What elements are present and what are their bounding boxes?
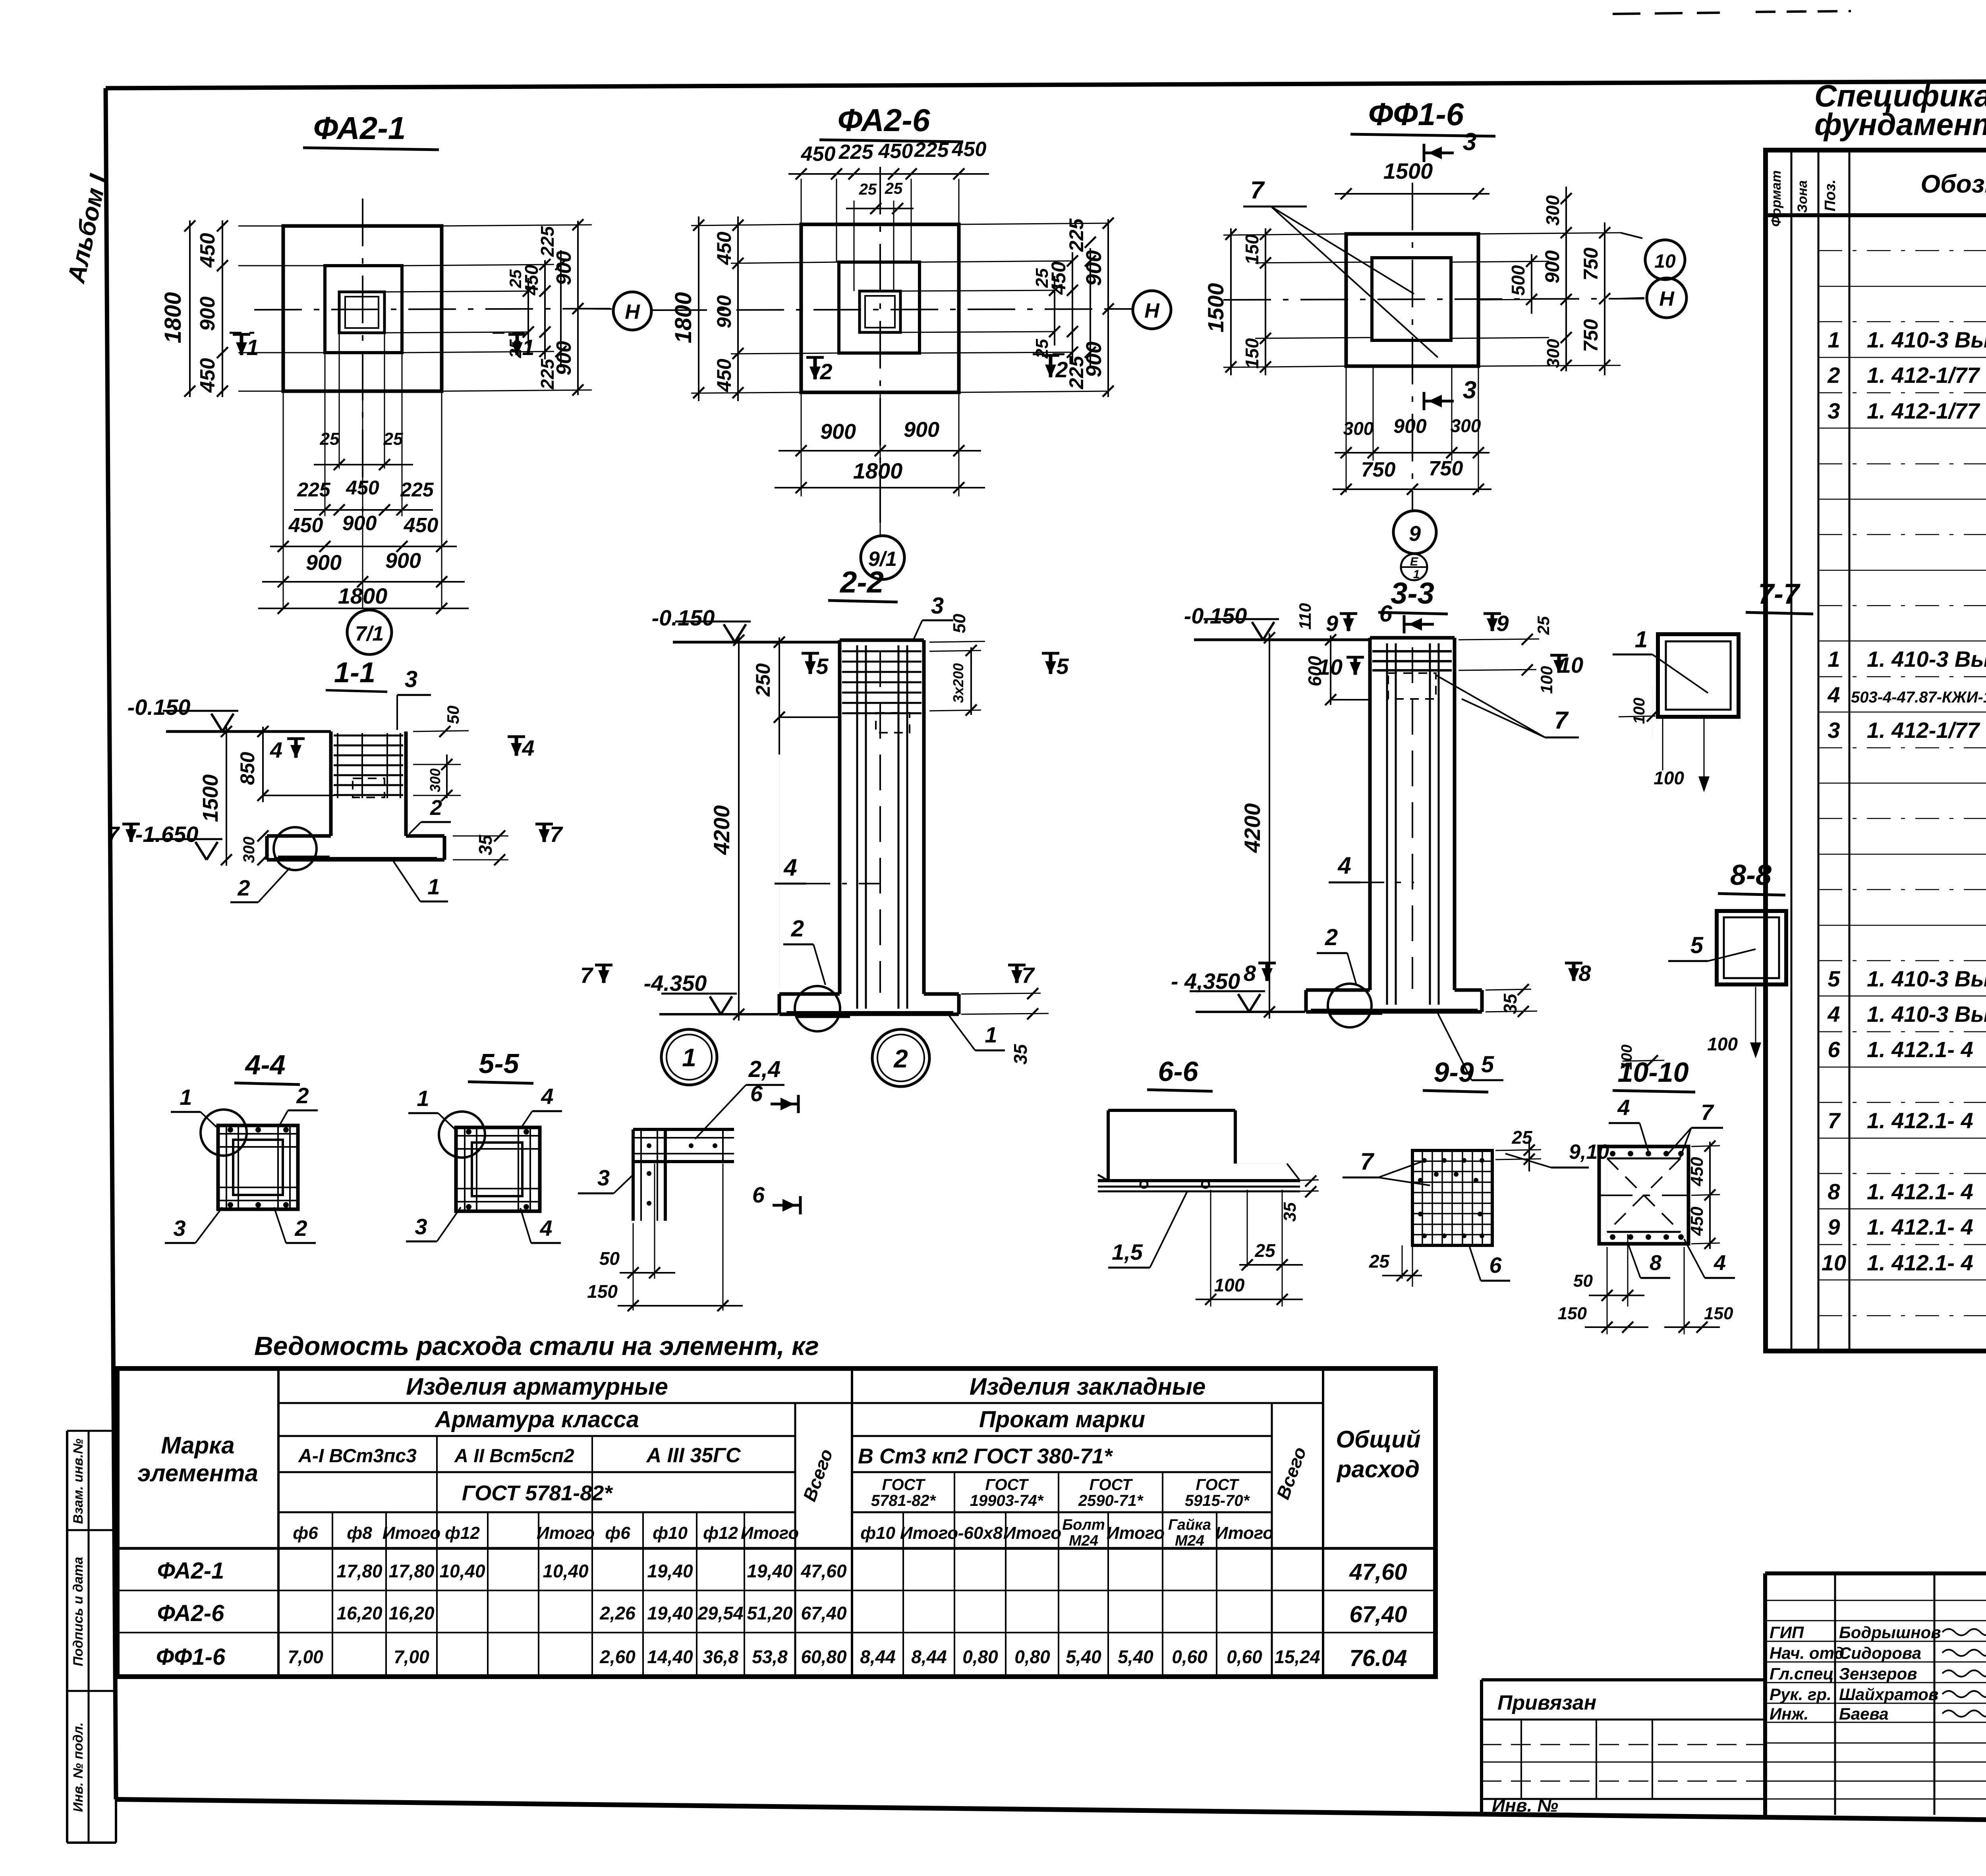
svg-text:А III 35ГС: А III 35ГС: [645, 1444, 741, 1467]
svg-text:16,20: 16,20: [388, 1603, 435, 1623]
steel table vertical lines: [278, 1368, 1323, 1677]
svg-text:2: 2: [296, 1083, 309, 1108]
svg-text:1800: 1800: [160, 292, 186, 343]
section 2-2 column: [840, 640, 924, 994]
section 2-2 label 3: [914, 593, 953, 639]
plan FA2-1 axis line to shared circle: [578, 309, 612, 309]
svg-text:М24: М24: [1175, 1532, 1204, 1549]
corner detail flags 6: [750, 1081, 800, 1214]
section 4-4 detail circle: [201, 1110, 247, 1156]
section 1-1 dim 850: [236, 726, 334, 802]
svg-text:6: 6: [1489, 1253, 1502, 1278]
svg-text:10: 10: [1822, 1250, 1846, 1275]
svg-text:225: 225: [297, 479, 331, 501]
svg-text:Н: Н: [1659, 288, 1675, 311]
position circle 1: [661, 1029, 717, 1085]
section 3-3 label 4: [1329, 852, 1414, 882]
svg-text:1: 1: [682, 1043, 696, 1072]
section 7-7 bottom dim 100: [1654, 719, 1710, 792]
svg-text:3х200: 3х200: [950, 663, 966, 703]
section 1-1 detail circle: [274, 827, 330, 870]
plan FF1-6 axis circle 10: [1621, 233, 1685, 280]
svg-text:850: 850: [236, 752, 259, 785]
section 3-3 ground line: [1194, 639, 1370, 641]
plan FA2-6 middle square: [839, 262, 920, 353]
svg-text:900: 900: [1082, 250, 1106, 286]
section 1-1 dim 35 right: [453, 822, 563, 865]
sheet frame top line: [106, 79, 1986, 88]
section 6-6 label 1,5: [1108, 1191, 1188, 1268]
svg-text:150: 150: [1242, 234, 1262, 264]
svg-text:450: 450: [346, 477, 379, 499]
svg-text:2: 2: [893, 1044, 908, 1073]
svg-text:900: 900: [196, 297, 219, 331]
section 1-1 ground line: [166, 730, 331, 733]
svg-text:Баева: Баева: [1839, 1704, 1889, 1723]
section 1-1 right flags 4: [270, 735, 535, 762]
section 7-7 title: [1746, 578, 1813, 614]
svg-text:25: 25: [320, 429, 340, 449]
svg-text:19903-74*: 19903-74*: [970, 1492, 1044, 1509]
svg-text:10: 10: [1559, 652, 1583, 677]
svg-text:35: 35: [1010, 1044, 1031, 1065]
section 1-1 mesh hatch: [334, 733, 403, 798]
section 1-1 title: [326, 657, 387, 692]
plan FA2-6 column square: [860, 291, 900, 332]
steel table diameter row: [293, 1517, 1273, 1549]
section 2-2 dim 35: [961, 988, 1049, 1065]
section 4-4 title: [234, 1049, 300, 1085]
svg-text:-1.650: -1.650: [135, 822, 199, 847]
plan FA2-6 centerlines: [659, 167, 1128, 528]
plan FA2-6 axis circle right: [1108, 291, 1171, 329]
svg-text:50: 50: [599, 1248, 620, 1269]
svg-text:ГОСТ: ГОСТ: [1090, 1476, 1134, 1494]
plan FA2-6 axis circle left: [613, 292, 659, 330]
svg-text:300: 300: [1544, 339, 1563, 368]
svg-text:Марка: Марка: [161, 1432, 234, 1459]
section 2-2 flag 5 right: [1042, 653, 1069, 679]
svg-text:7: 7: [1360, 1148, 1375, 1175]
svg-text:7: 7: [1250, 177, 1265, 204]
svg-text:10,40: 10,40: [543, 1561, 589, 1581]
svg-text:5781-82*: 5781-82*: [871, 1492, 937, 1509]
position circle 7/1 above section 1-1: [347, 610, 392, 654]
steel table title: [254, 1331, 819, 1361]
svg-text:Зона: Зона: [1795, 180, 1810, 213]
svg-text:7,00: 7,00: [288, 1646, 323, 1667]
svg-text:225: 225: [914, 139, 949, 162]
svg-text:900: 900: [1393, 415, 1427, 437]
svg-text:Изделия арматурные: Изделия арматурные: [406, 1373, 668, 1400]
svg-text:0,80: 0,80: [1014, 1646, 1050, 1667]
plan FA2-6 outer square: [801, 224, 959, 392]
section 3-3 flag 6 top: [1379, 601, 1434, 633]
spec rows FF1-6 block: [1822, 858, 1986, 1346]
plan FA2-1 middle square: [325, 266, 402, 353]
svg-text:8: 8: [1828, 1179, 1840, 1204]
svg-text:3: 3: [415, 1214, 427, 1239]
plan FA2-1 bottom dims 900 900: [262, 549, 465, 587]
plan FA2-1 outer square: [283, 226, 442, 391]
svg-text:- 4,350: - 4,350: [1171, 969, 1240, 994]
svg-text:9-9: 9-9: [1433, 1057, 1474, 1088]
section 2-2 label 4 center: [775, 854, 880, 884]
svg-text:7: 7: [1701, 1100, 1714, 1125]
svg-text:2-2: 2-2: [839, 566, 884, 599]
svg-text:ГОСТ: ГОСТ: [882, 1476, 926, 1494]
section 3-3 right top flags: [1459, 611, 1583, 694]
svg-text:16,20: 16,20: [336, 1603, 383, 1623]
svg-text:Нач. отд: Нач. отд: [1770, 1644, 1844, 1662]
plan FA2-6 top extension lines: [801, 179, 959, 291]
svg-text:ФА2-6: ФА2-6: [838, 102, 930, 138]
top staple dashes: [1613, 11, 1986, 35]
svg-text:4: 4: [1617, 1095, 1630, 1120]
left margin strip boxes: [67, 1431, 116, 1843]
svg-text:1: 1: [246, 335, 259, 360]
svg-text:25: 25: [859, 181, 877, 198]
svg-text:450: 450: [1687, 1206, 1707, 1236]
svg-text:4: 4: [783, 854, 797, 881]
section 8-8 square: [1717, 911, 1786, 984]
svg-text:Бодрышнов: Бодрышнов: [1839, 1623, 1941, 1642]
section 2-2 level -4.350: [644, 971, 779, 1014]
svg-text:225: 225: [400, 479, 434, 501]
svg-text:1500: 1500: [1203, 283, 1228, 333]
section 2-2 right top dims: [929, 614, 985, 716]
plan FF1-6 label 7 with leaders: [1243, 177, 1438, 357]
plan FA2-1 bottom dims 450 900 450: [270, 512, 457, 552]
svg-text:25: 25: [506, 339, 525, 358]
section 9-9 mesh square: [1412, 1150, 1492, 1245]
svg-text:900: 900: [385, 549, 421, 573]
section 2-2 level -0.150: [652, 605, 751, 642]
svg-text:300: 300: [1451, 415, 1481, 436]
svg-text:450: 450: [404, 514, 439, 537]
svg-text:1-1: 1-1: [334, 657, 375, 689]
section 3-3 level -4.350: [1171, 969, 1305, 1012]
svg-text:750: 750: [1580, 319, 1602, 352]
svg-text:900: 900: [306, 551, 342, 575]
svg-text:1. 410-3 Вып. 1: 1. 410-3 Вып. 1: [1867, 647, 1986, 672]
svg-text:6-6: 6-6: [1158, 1056, 1198, 1087]
corner detail label 3: [578, 1165, 632, 1193]
section 3-3 level -0.150: [1184, 603, 1279, 640]
svg-text:расход: расход: [1336, 1456, 1420, 1482]
svg-text:2: 2: [791, 916, 804, 942]
svg-text:7,00: 7,00: [394, 1646, 429, 1667]
svg-text:47,60: 47,60: [800, 1561, 847, 1581]
svg-text:100: 100: [1631, 698, 1648, 724]
section 3-3 label 7 with leaders: [1436, 675, 1579, 737]
plan FA2-6 top dim labels: [788, 138, 989, 214]
steel table data row FF1-6: [156, 1644, 1407, 1671]
section 5-5 square with reinforcement: [456, 1127, 540, 1211]
svg-text:Прокат марки: Прокат марки: [979, 1407, 1145, 1432]
svg-text:А II Вст5сп2: А II Вст5сп2: [454, 1446, 574, 1467]
svg-text:2,4: 2,4: [748, 1056, 781, 1082]
svg-text:5: 5: [1481, 1052, 1494, 1077]
svg-text:150: 150: [1704, 1304, 1733, 1323]
svg-text:3: 3: [173, 1216, 185, 1241]
svg-text:3: 3: [931, 593, 944, 619]
svg-text:0,60: 0,60: [1227, 1646, 1262, 1667]
svg-text:25: 25: [885, 180, 903, 197]
svg-text:2: 2: [430, 796, 442, 820]
svg-text:ф8: ф8: [347, 1523, 372, 1543]
section 1-1 footing: [267, 836, 444, 860]
svg-text:35: 35: [475, 834, 496, 855]
svg-text:Е: Е: [1410, 555, 1418, 568]
svg-text:Формат: Формат: [1769, 170, 1784, 227]
svg-text:Итого: Итого: [900, 1523, 958, 1543]
section 1-1 column outline: [331, 731, 406, 836]
svg-text:-0.150: -0.150: [652, 605, 715, 630]
svg-text:ф6: ф6: [293, 1523, 318, 1543]
svg-text:ф12: ф12: [703, 1523, 738, 1543]
svg-text:300: 300: [1542, 195, 1563, 226]
section 3-3 flag 8 left: [1244, 961, 1276, 986]
spec rows FA2-1 block: [1827, 220, 1986, 494]
section 2-2 rebars: [857, 645, 907, 1009]
svg-text:Сидорова: Сидорова: [1839, 1644, 1921, 1662]
svg-text:50: 50: [950, 614, 969, 633]
svg-text:750: 750: [1361, 458, 1396, 481]
sheet frame left line: [106, 88, 116, 1799]
svg-text:4: 4: [1827, 1002, 1840, 1027]
section 3-3 dim 35: [1486, 984, 1537, 1017]
svg-text:ГОСТ 5781-82*: ГОСТ 5781-82*: [462, 1481, 614, 1505]
svg-text:4: 4: [522, 735, 534, 760]
svg-text:450: 450: [196, 233, 219, 268]
position circle 2: [872, 1029, 929, 1087]
plan FA2-1 left dimension 1800: [160, 220, 283, 397]
svg-text:25: 25: [1254, 1240, 1276, 1261]
svg-text:19,40: 19,40: [647, 1603, 693, 1623]
svg-text:ГИП: ГИП: [1770, 1623, 1804, 1642]
section 3-3 flag 8 right: [1565, 961, 1591, 986]
section 3-3 left top dims: [1296, 603, 1368, 705]
svg-text:900: 900: [820, 420, 856, 444]
svg-text:Поз.: Поз.: [1822, 179, 1839, 212]
svg-text:67,40: 67,40: [801, 1603, 847, 1623]
corner detail dims 50 150: [587, 1164, 743, 1311]
svg-text:2: 2: [1827, 363, 1840, 388]
plan FA2-1 section mark 1 right: [493, 333, 535, 360]
svg-text:1. 412.1- 4: 1. 412.1- 4: [1867, 1037, 1973, 1062]
plan FF1-6 bottom section arrow 3: [1424, 376, 1476, 410]
section 10-10 square: [1599, 1146, 1688, 1244]
svg-text:19,40: 19,40: [747, 1561, 793, 1581]
plan FF1-6 outer square: [1346, 234, 1478, 366]
svg-text:14,40: 14,40: [647, 1646, 693, 1667]
svg-text:250: 250: [752, 663, 774, 697]
section 2-2 flag 5 left: [802, 653, 829, 679]
svg-text:450: 450: [801, 143, 836, 166]
svg-text:2,26: 2,26: [599, 1603, 636, 1623]
svg-text:5915-70*: 5915-70*: [1185, 1492, 1250, 1509]
svg-text:8: 8: [1578, 961, 1591, 986]
section 6-6 plate drawing: [1098, 1110, 1300, 1191]
plan FA2-1 right dimensions: [384, 219, 592, 396]
svg-text:25: 25: [1369, 1251, 1390, 1272]
section 1-1 label 2 right: [409, 796, 451, 834]
svg-text:Ведомость расхода стали на э: Ведомость расхода стали на элемент, кг: [254, 1331, 819, 1361]
svg-text:7: 7: [1022, 963, 1035, 988]
section 7-7 square: [1658, 634, 1739, 717]
svg-text:1. 410-3 Вып. 1: 1. 410-3 Вып. 1: [1867, 1002, 1986, 1027]
svg-text:элемента: элемента: [137, 1460, 258, 1486]
section 8-8 label 5: [1668, 932, 1756, 961]
plan FA2-6 section mark 2 right: [1033, 354, 1068, 382]
svg-text:В Ст3 кп2 ГОСТ 380-71*: В Ст3 кп2 ГОСТ 380-71*: [858, 1444, 1113, 1468]
svg-text:2: 2: [294, 1216, 307, 1241]
svg-text:503-4-47.87-КЖИ-1С: 503-4-47.87-КЖИ-1С: [1851, 689, 1986, 706]
svg-text:Шайхратов: Шайхратов: [1839, 1685, 1938, 1704]
section 2-2 flag 7 right: [1008, 963, 1035, 988]
svg-text:450: 450: [288, 514, 323, 537]
svg-text:1. 412.1- 4: 1. 412.1- 4: [1867, 1179, 1973, 1204]
svg-text:47,60: 47,60: [1349, 1559, 1407, 1585]
svg-text:1800: 1800: [670, 292, 696, 343]
svg-text:51,20: 51,20: [747, 1603, 793, 1623]
section 7-7 label 1: [1613, 627, 1708, 693]
svg-text:1. 412-1/77 Вып.3: 1. 412-1/77 Вып.3: [1867, 363, 1986, 388]
plan FA2-1 title: [303, 110, 439, 150]
section 10-10 title: [1613, 1057, 1695, 1092]
plan FF1-6 top dim 1500: [1335, 158, 1489, 199]
plan FF1-6 left dims: [1203, 228, 1372, 375]
section 9-9 label 6: [1470, 1247, 1510, 1281]
svg-text:Итого: Итого: [1003, 1523, 1061, 1543]
svg-text:2,60: 2,60: [599, 1646, 636, 1667]
svg-text:Подпись и дата: Подпись и дата: [71, 1557, 86, 1666]
section 10-10 bottom labels 8 4: [1629, 1239, 1735, 1278]
svg-text:1,5: 1,5: [1112, 1239, 1143, 1264]
svg-text:Обозначение: Обозначение: [1920, 170, 1986, 198]
svg-text:900: 900: [342, 512, 377, 535]
plan FA2-1 left dimension 450-900-450: [196, 220, 325, 397]
svg-text:900: 900: [1082, 342, 1106, 377]
svg-text:3: 3: [405, 666, 417, 692]
svg-text:Итого: Итого: [383, 1523, 440, 1543]
svg-text:4: 4: [1714, 1251, 1726, 1275]
section 3-3 dim 4200: [1240, 632, 1275, 1019]
svg-text:7: 7: [550, 822, 563, 847]
svg-text:50: 50: [444, 706, 462, 724]
steel table header texts: [137, 1373, 1420, 1509]
plan FF1-6 title: [1350, 97, 1495, 136]
spec table outer border: [1766, 150, 1986, 1351]
svg-text:ГОСТ: ГОСТ: [985, 1476, 1030, 1494]
svg-text:4: 4: [541, 1084, 553, 1109]
svg-text:-60х8: -60х8: [958, 1523, 1003, 1543]
svg-text:2: 2: [819, 359, 832, 384]
svg-text:8: 8: [1244, 961, 1256, 986]
svg-text:5,40: 5,40: [1066, 1646, 1101, 1667]
svg-text:10: 10: [1654, 251, 1676, 272]
spec rows FA2-6 block: [1827, 539, 1986, 814]
svg-text:17,80: 17,80: [336, 1561, 383, 1581]
section 6-6 title: [1147, 1056, 1213, 1091]
svg-text:25: 25: [383, 429, 403, 449]
svg-text:ФА2-1: ФА2-1: [157, 1558, 224, 1584]
privyazan box: [1482, 1680, 1765, 1816]
svg-text:1800: 1800: [853, 458, 903, 483]
corner detail label 2,4: [695, 1056, 784, 1139]
svg-text:Арматура класса: Арматура класса: [434, 1407, 639, 1432]
svg-text:50: 50: [1573, 1271, 1593, 1291]
left margin strip rotated labels: [71, 1438, 86, 1812]
svg-text:Общий: Общий: [1336, 1426, 1420, 1453]
svg-text:76.04: 76.04: [1349, 1645, 1407, 1671]
svg-text:Итого: Итого: [741, 1523, 799, 1543]
title block outer border: [1765, 1573, 1986, 1826]
svg-text:Инв. № подл.: Инв. № подл.: [71, 1722, 86, 1812]
svg-text:ф12: ф12: [445, 1523, 480, 1543]
section 8-8 dims 100: [1619, 987, 1761, 1070]
svg-text:9: 9: [1496, 611, 1509, 636]
svg-text:9: 9: [1828, 1214, 1840, 1239]
section 6-6 dims: [1196, 1175, 1319, 1307]
svg-text:0,60: 0,60: [1172, 1646, 1207, 1667]
svg-text:25: 25: [1032, 339, 1052, 359]
svg-text:150: 150: [1242, 338, 1262, 369]
svg-text:17,80: 17,80: [388, 1561, 435, 1581]
svg-text:100: 100: [1214, 1275, 1245, 1295]
spec table header row: [1766, 150, 1986, 1351]
plan FF1-6 right dims: [1451, 187, 1621, 375]
svg-text:25: 25: [1534, 616, 1553, 635]
svg-text:Взам. инв.№: Взам. инв.№: [71, 1438, 86, 1524]
section 1-1 dim 300: [240, 830, 269, 865]
plan FA2-6 section mark 2 left: [806, 357, 833, 384]
section 2-2 flag 7 left: [580, 963, 612, 988]
svg-text:19,40: 19,40: [647, 1561, 693, 1581]
svg-text:60,80: 60,80: [801, 1646, 847, 1667]
svg-text:3: 3: [1463, 128, 1476, 156]
svg-text:1. 410-3 Вып. 1: 1. 410-3 Вып. 1: [1867, 966, 1986, 991]
section 2-2 label 2 and detail circle: [783, 916, 850, 1031]
svg-text:450: 450: [952, 138, 987, 161]
svg-text:4: 4: [1337, 852, 1351, 879]
svg-text:225: 225: [838, 141, 874, 164]
title block signature texts: [1770, 1623, 1986, 1723]
svg-text:8: 8: [1650, 1251, 1661, 1275]
svg-text:450: 450: [713, 359, 735, 392]
svg-text:450: 450: [1047, 261, 1070, 295]
svg-text:1500: 1500: [1383, 158, 1433, 183]
section 1-1 dim 1500: [199, 726, 232, 866]
svg-text:Привязан: Привязан: [1497, 1691, 1596, 1714]
svg-text:3: 3: [597, 1165, 610, 1190]
svg-text:-4.350: -4.350: [644, 971, 707, 996]
svg-text:900: 900: [553, 341, 576, 376]
section 10-10 bottom dims: [1558, 1234, 1733, 1334]
svg-text:450: 450: [878, 140, 913, 163]
svg-text:1800: 1800: [338, 583, 388, 608]
svg-text:4200: 4200: [709, 805, 734, 855]
section 5-5 labels: [406, 1084, 562, 1243]
svg-text:8,44: 8,44: [911, 1646, 947, 1667]
spec row 13 long designation: [1851, 682, 1986, 715]
svg-text:Гл.спец: Гл.спец: [1770, 1664, 1833, 1683]
svg-text:4-4: 4-4: [244, 1049, 285, 1080]
svg-text:5: 5: [1690, 932, 1704, 958]
svg-text:6: 6: [750, 1081, 763, 1106]
svg-text:7: 7: [1828, 1108, 1841, 1133]
